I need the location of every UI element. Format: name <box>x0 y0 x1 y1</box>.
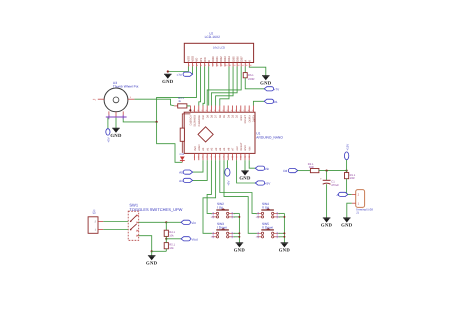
U3 bottom pins <box>109 111 123 117</box>
svg-text:GND: GND <box>239 176 251 182</box>
switch SW1 TOGGLES SWITCHES_UPW box <box>128 202 182 240</box>
wire RS to D12 <box>199 67 201 106</box>
wire DB4 staircase <box>220 67 229 106</box>
wire SW4 pins to gnd rail <box>278 213 284 217</box>
svg-text:24: 24 <box>214 109 216 112</box>
svg-text:28: 28 <box>197 109 199 112</box>
U1 top pins with names <box>189 106 256 127</box>
svg-text:22: 22 <box>222 109 224 112</box>
svg-text:+5V: +5V <box>265 182 272 186</box>
svg-text:+5V: +5V <box>236 146 239 151</box>
U2 pins 1-16 with names <box>187 56 252 67</box>
wire J2 pin2 to SW1 <box>103 221 128 223</box>
svg-text:GND: GND <box>279 248 291 254</box>
svg-text:18: 18 <box>239 109 241 112</box>
pushbutton SW2 I Up <box>211 202 235 219</box>
svg-text:Vout: Vout <box>191 237 197 241</box>
junction at R1.1 top <box>346 170 348 172</box>
svg-text:12: 12 <box>233 64 235 67</box>
wire D13 branch <box>182 114 190 128</box>
svg-text:D11/MOSI: D11/MOSI <box>198 115 201 127</box>
wire SW2 pins to gnd rail <box>233 213 239 217</box>
svg-text:1: 1 <box>189 64 190 67</box>
net flag Vout <box>181 237 198 242</box>
ground below U1 <box>239 171 251 182</box>
net label D13 <box>180 153 185 156</box>
svg-text:16: 16 <box>248 109 250 112</box>
svg-text:13: 13 <box>244 156 246 159</box>
svg-text:D10: D10 <box>202 114 205 119</box>
wire +12V to node <box>346 160 348 171</box>
wire DB6 staircase <box>211 67 237 106</box>
wire A0 to flag <box>193 160 203 172</box>
pushbutton SW4 V Up <box>256 202 280 219</box>
svg-text:17: 17 <box>243 109 245 112</box>
wire SW3 pins to gnd rail <box>233 233 239 237</box>
power flag +5V pot <box>106 129 111 143</box>
svg-text:Vin: Vin <box>265 167 270 171</box>
wire LED-K to ground <box>249 67 265 76</box>
wire pot pin3 to R3.1 <box>134 99 174 106</box>
wire RW to pin <box>203 67 205 106</box>
svg-text:2: 2 <box>198 156 199 159</box>
svg-text:3: 3 <box>202 156 203 159</box>
svg-text:RESET: RESET <box>244 115 247 124</box>
junction ground rail <box>151 250 153 252</box>
svg-text:GND: GND <box>321 223 333 229</box>
svg-text:5: 5 <box>210 156 211 159</box>
ground below SW3 <box>234 243 246 254</box>
svg-text:+12V: +12V <box>346 144 350 151</box>
wire A1 to flag <box>193 160 208 180</box>
svg-text:11: 11 <box>236 156 238 159</box>
svg-text:29: 29 <box>193 109 195 112</box>
svg-text:+: + <box>320 177 322 181</box>
resistor R7.1 on D13 <box>180 128 184 141</box>
net flag A0 <box>179 170 192 175</box>
svg-text:19: 19 <box>235 109 237 112</box>
ground top-left <box>162 74 174 85</box>
power flag +12V oval <box>344 144 349 160</box>
svg-text:1: 1 <box>194 156 195 159</box>
wire VO to pot wiper net <box>123 67 196 122</box>
ground below terminal <box>341 218 353 229</box>
svg-text:26: 26 <box>206 109 208 112</box>
svg-text:GND: GND <box>260 80 272 86</box>
junction on pot net <box>156 121 158 123</box>
svg-text:+7V: +7V <box>274 87 281 91</box>
svg-text:+7V: +7V <box>176 73 183 77</box>
svg-text:VIN: VIN <box>248 146 251 150</box>
resistor R1.1 10R <box>345 171 356 180</box>
svg-text:D1: D1 <box>274 100 278 104</box>
ground below SW5 <box>279 243 291 254</box>
wire C1 to ground <box>326 184 328 218</box>
IC U2 LCD-16X2 body <box>184 31 253 62</box>
svg-text:AREF: AREF <box>198 144 201 151</box>
net flag A1 <box>179 178 192 183</box>
svg-text:Thumb Wheel Pot: Thumb Wheel Pot <box>113 85 139 89</box>
svg-text:21: 21 <box>227 109 229 112</box>
svg-text:12: 12 <box>240 156 242 159</box>
svg-text:2: 2 <box>256 236 257 239</box>
wire VIN to flag <box>249 160 255 168</box>
junction Vin node <box>165 221 167 223</box>
ground below C1 <box>321 218 333 229</box>
wire ground rail <box>152 250 167 252</box>
SW1 toggle A <box>130 214 139 223</box>
wire pot middle to ground <box>115 118 117 129</box>
pushbutton SW5 V Down <box>256 222 280 239</box>
wire R6.1 to +7V flag <box>245 78 264 89</box>
svg-text:Vin: Vin <box>191 221 196 225</box>
junction at top-left ground <box>167 70 169 72</box>
svg-text:V Up: V Up <box>262 206 269 210</box>
svg-text:220R: 220R <box>248 78 254 81</box>
svg-text:4: 4 <box>206 156 207 159</box>
wire DB7 staircase <box>207 67 241 106</box>
wire LED-A to R6.1 <box>244 67 246 73</box>
svg-text:3V3: 3V3 <box>194 146 197 151</box>
svg-text:9: 9 <box>227 156 228 159</box>
svg-text:8: 8 <box>223 156 224 159</box>
svg-text:2: 2 <box>211 216 212 219</box>
svg-text:11: 11 <box>229 64 231 67</box>
potentiometer U3 Thumb Wheel Pot body <box>104 81 138 112</box>
wire A3 to SW3 <box>203 160 216 233</box>
SW1 toggle B <box>130 224 139 237</box>
U1 bottom pins with names <box>194 142 252 160</box>
wire A2 to SW2 <box>207 160 212 213</box>
wire D1 to flag <box>253 101 264 105</box>
wire SW1-A to Vin node <box>139 221 167 223</box>
resistor R5.1 10k <box>164 239 175 252</box>
resistor R4.1 10k <box>164 222 175 239</box>
svg-text:16x2 LCD: 16x2 LCD <box>213 47 225 50</box>
svg-text:A1: A1 <box>179 179 183 183</box>
svg-text:8: 8 <box>217 64 218 67</box>
net flag Vin U1 <box>255 166 269 171</box>
svg-text:2: 2 <box>211 236 212 239</box>
svg-text:6: 6 <box>209 64 210 67</box>
svg-text:14: 14 <box>242 64 244 67</box>
junction Vout node <box>165 238 167 240</box>
svg-text:GND: GND <box>240 115 243 121</box>
svg-text:10: 10 <box>231 156 233 159</box>
svg-text:25: 25 <box>210 109 212 112</box>
svg-text:D13: D13 <box>180 153 185 156</box>
wire terminal pin1 to ground <box>347 203 352 218</box>
svg-text:5: 5 <box>205 64 206 67</box>
pushbutton SW3 I Down <box>211 222 235 239</box>
wire VSS to ground <box>168 67 189 72</box>
power flag +5V right <box>255 181 271 186</box>
wire GND pin to ground <box>244 160 246 171</box>
svg-text:I Up: I Up <box>217 206 223 210</box>
resistor R6.1 220R <box>243 73 254 82</box>
junction at C1 top <box>326 170 328 172</box>
svg-text:2: 2 <box>256 216 257 219</box>
svg-text:GND: GND <box>162 79 174 85</box>
resistor R2.1 39R <box>308 163 319 173</box>
svg-text:ARDUINO_NANO: ARDUINO_NANO <box>256 135 283 139</box>
svg-text:R6.1: R6.1 <box>248 74 254 77</box>
svg-text:GND: GND <box>244 145 247 151</box>
wire SW1-B to ground rail <box>139 236 152 252</box>
svg-text:GND: GND <box>146 260 158 266</box>
wire VDD to +7V flag <box>191 67 193 75</box>
wire gnd rail right <box>283 213 285 242</box>
svg-text:D12/MISO: D12/MISO <box>194 115 197 127</box>
U3 wiper bar <box>106 115 127 119</box>
svg-text:A0: A0 <box>179 171 183 175</box>
junction on D13 pin <box>189 109 191 111</box>
wire A5 to SW5 <box>224 160 257 233</box>
svg-text:23: 23 <box>218 109 220 112</box>
net flag A1 sense <box>337 192 348 197</box>
wire resistor to LED <box>181 141 183 153</box>
svg-text:16: 16 <box>250 64 252 67</box>
svg-text:GND: GND <box>341 223 353 229</box>
svg-text:D1/TX: D1/TX <box>253 115 256 122</box>
svg-text:10k: 10k <box>169 247 174 250</box>
svg-text:10k: 10k <box>169 234 174 237</box>
LED D2 indicator <box>180 157 185 163</box>
svg-text:13: 13 <box>238 64 240 67</box>
wire gnd rail left <box>238 213 240 242</box>
wire R2.1 to R1.1 node <box>319 170 347 172</box>
svg-text:470uF: 470uF <box>331 184 339 187</box>
capacitor C1 470uF <box>320 177 339 187</box>
wire E to pin <box>208 67 210 106</box>
svg-text:LCD-16X2: LCD-16X2 <box>205 35 221 39</box>
svg-text:+5V: +5V <box>226 181 230 186</box>
svg-text:D13/SCK: D13/SCK <box>190 115 193 126</box>
wire +5V to flag <box>237 160 256 183</box>
svg-text:K: K <box>248 60 252 62</box>
svg-text:20: 20 <box>231 109 233 112</box>
svg-text:5V: 5V <box>93 212 96 215</box>
wire D3 flag to R2.1 <box>298 170 311 172</box>
svg-text:J1: J1 <box>356 211 359 215</box>
svg-text:GND: GND <box>234 248 246 254</box>
svg-text:7: 7 <box>219 156 220 159</box>
net flag D1 <box>264 99 278 104</box>
wire rail to ground <box>151 251 153 255</box>
power flag +5V vertical <box>225 168 231 185</box>
svg-text:GND: GND <box>110 133 122 139</box>
svg-text:2: 2 <box>193 64 194 67</box>
svg-text:V Down: V Down <box>262 226 273 230</box>
svg-text:14: 14 <box>248 156 250 159</box>
svg-text:15: 15 <box>252 109 254 112</box>
svg-text:10R: 10R <box>350 177 355 180</box>
resistor R3.1 1k <box>174 97 190 108</box>
power flag +7V right <box>264 87 280 92</box>
svg-text:D3: D3 <box>283 169 287 173</box>
net flag Vin <box>181 220 196 225</box>
wire A4 to SW4 <box>220 160 257 213</box>
net flag D3 <box>283 169 297 174</box>
svg-text:15: 15 <box>246 64 248 67</box>
svg-text:9: 9 <box>221 64 222 67</box>
wire Vin node to flag <box>166 221 181 223</box>
wire A1 node to terminal pin2 <box>348 193 352 195</box>
wire node to C1 <box>326 171 328 181</box>
ground below pot <box>110 128 122 139</box>
IC U1 ARDUINO_NANO body <box>184 112 283 153</box>
wire pot to +5V oval <box>107 118 109 129</box>
wire SW5 pins to gnd rail <box>278 233 284 237</box>
svg-text:RESET: RESET <box>240 142 243 151</box>
wire R1.1 to A1 node <box>346 179 348 195</box>
U1 crystal diamond <box>198 127 213 142</box>
junctions gnd rail left <box>238 216 240 238</box>
connector J2 body <box>88 209 103 233</box>
svg-text:6: 6 <box>215 156 216 159</box>
U3 pin1 left <box>93 99 104 102</box>
junction at A1 node <box>346 193 348 195</box>
terminal J1 body <box>352 190 373 215</box>
wire DB5 staircase <box>216 67 233 106</box>
ground SW1 <box>146 256 158 267</box>
ground LCD right <box>260 76 272 87</box>
svg-text:D0/RX: D0/RX <box>248 115 251 123</box>
power flag +7V left <box>176 72 192 77</box>
U3 pin3 right <box>128 96 134 99</box>
wire A6 to +5V oval <box>226 160 228 168</box>
junctions gnd rail right <box>283 216 285 238</box>
svg-text:I Down: I Down <box>217 226 227 230</box>
svg-text:10: 10 <box>225 64 227 67</box>
svg-text:3: 3 <box>197 64 198 67</box>
wire pot net to LED cathode <box>157 122 183 162</box>
svg-text:7: 7 <box>213 64 214 67</box>
svg-text:TOGGLES SWITCHES_UPW: TOGGLES SWITCHES_UPW <box>129 207 182 212</box>
wire J2 pin1 to SW1 <box>103 229 128 231</box>
svg-text:39R: 39R <box>309 166 314 169</box>
svg-text:27: 27 <box>201 109 203 112</box>
svg-text:4: 4 <box>201 64 202 67</box>
wire Vout node to flag <box>166 238 181 240</box>
